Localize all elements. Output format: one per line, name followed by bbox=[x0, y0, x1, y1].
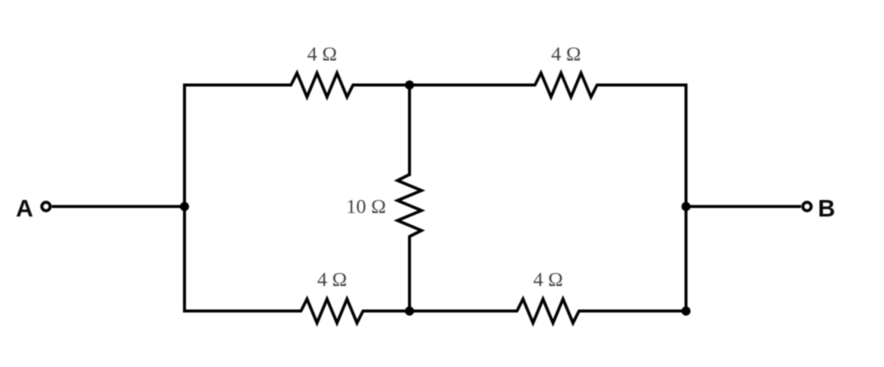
wire left vertical bbox=[183, 84, 186, 313]
node junction bottom-middle bbox=[405, 306, 414, 315]
wire bottom-right segment bbox=[578, 310, 686, 313]
wire middle vertical upper bbox=[408, 85, 411, 176]
svg-text:A: A bbox=[16, 196, 33, 223]
wire bottom-left segment bbox=[183, 310, 302, 313]
wire right node to B bbox=[686, 205, 801, 208]
node junction right (B node) bbox=[681, 202, 690, 211]
svg-text:4 Ω: 4 Ω bbox=[551, 44, 581, 66]
resistor R5 zigzag 10Ω middle vertical bbox=[398, 175, 422, 237]
wire top-middle segment bbox=[352, 84, 536, 87]
node junction left (A node) bbox=[180, 202, 189, 211]
wire top-right segment bbox=[596, 84, 688, 87]
wire right vertical bbox=[685, 84, 688, 312]
svg-text:4 Ω: 4 Ω bbox=[317, 269, 347, 291]
resistor R2 zigzag 4Ω top-right bbox=[535, 73, 597, 97]
wire middle vertical lower bbox=[408, 236, 411, 312]
wire A to left node bbox=[52, 205, 186, 208]
wire top-left segment bbox=[183, 84, 292, 87]
terminal A bbox=[42, 202, 50, 210]
resistor R3 zigzag 4Ω bottom-left bbox=[301, 299, 363, 323]
node junction top-middle bbox=[405, 80, 414, 89]
wire bottom-middle segment bbox=[362, 310, 518, 313]
svg-text:4 Ω: 4 Ω bbox=[533, 269, 563, 291]
resistor R4 zigzag 4Ω bottom-right bbox=[517, 299, 579, 323]
svg-text:B: B bbox=[818, 196, 835, 223]
svg-text:10 Ω: 10 Ω bbox=[346, 196, 386, 218]
terminal B bbox=[803, 202, 811, 210]
svg-text:4 Ω: 4 Ω bbox=[307, 44, 337, 66]
resistor R1 zigzag 4Ω top-left bbox=[291, 73, 353, 97]
node junction bottom-right corner bbox=[681, 306, 690, 315]
